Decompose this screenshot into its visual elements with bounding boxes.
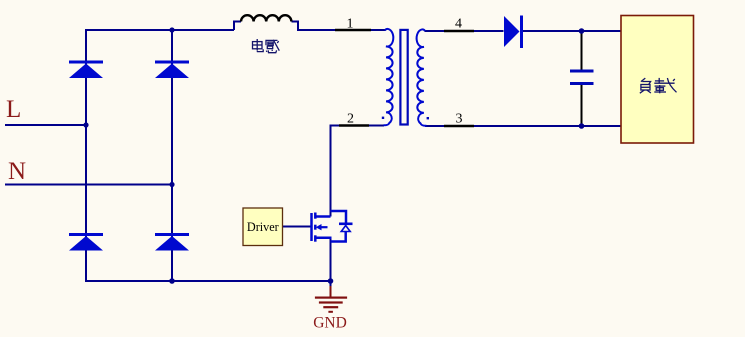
- svg-text:N: N: [8, 158, 26, 185]
- svg-text:Driver: Driver: [247, 220, 279, 234]
- svg-text:1: 1: [347, 17, 354, 32]
- svg-text:4: 4: [455, 17, 462, 32]
- svg-text:3: 3: [456, 112, 463, 127]
- svg-text:2: 2: [347, 112, 354, 127]
- svg-text:L: L: [6, 96, 21, 123]
- svg-text:GND: GND: [313, 315, 347, 332]
